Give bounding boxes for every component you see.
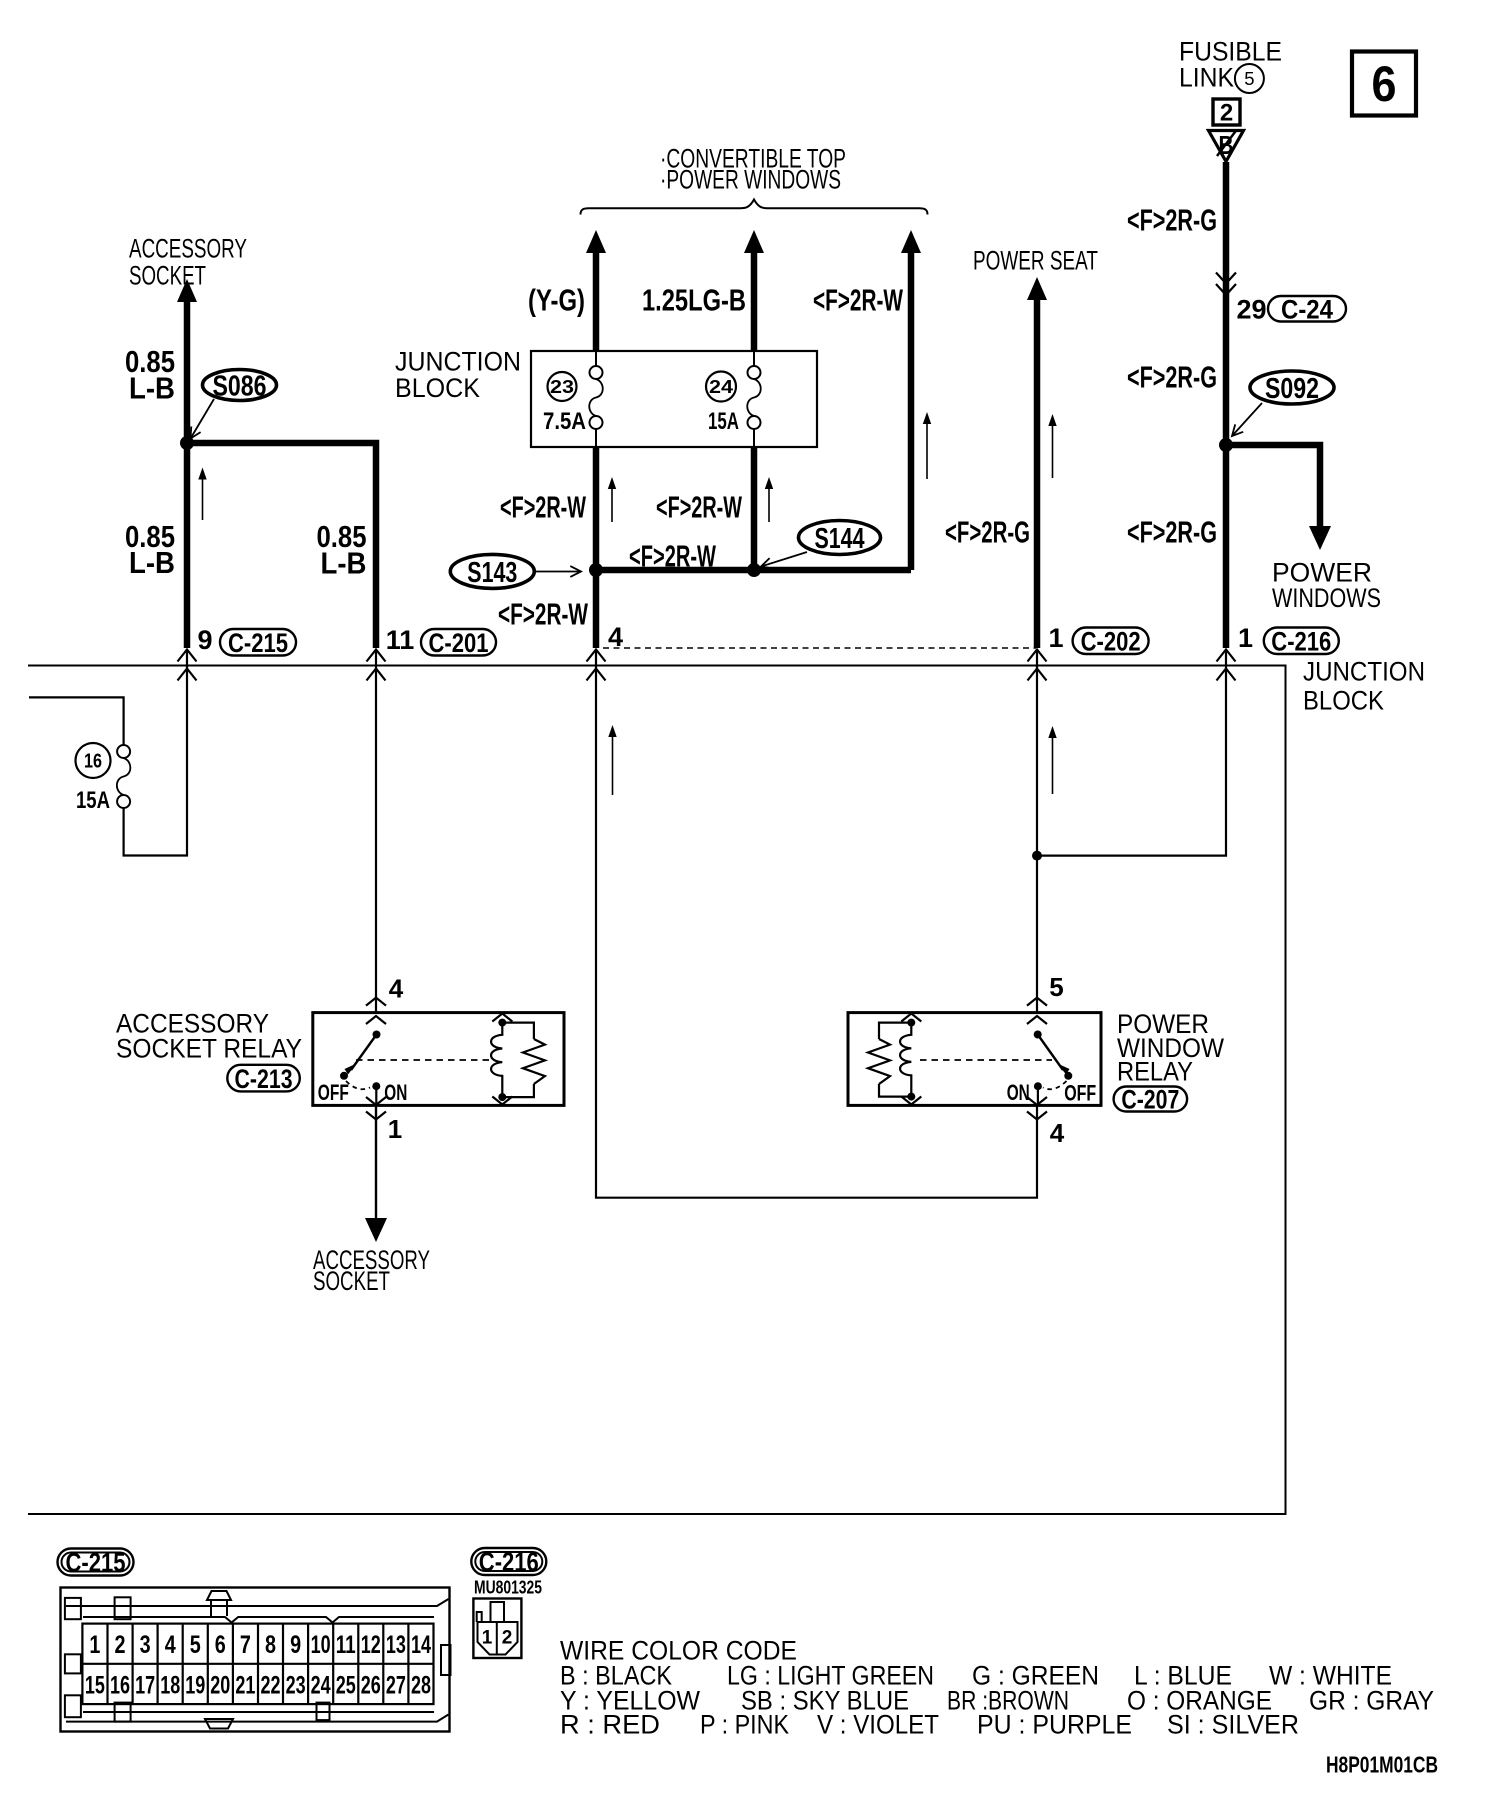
svg-text:<F>2R-W: <F>2R-W xyxy=(656,490,742,525)
connector chevrons at junction block border C-216 pin 1 xyxy=(1217,650,1236,662)
svg-text:29: 29 xyxy=(1236,295,1266,325)
accessory socket relay box xyxy=(313,1013,564,1106)
wire below fuse 23 down to S143 junction xyxy=(593,447,600,648)
svg-text:C-24: C-24 xyxy=(1281,294,1333,324)
svg-text:P : PINK: P : PINK xyxy=(700,1710,789,1740)
flow arrow beside fuse24 wire xyxy=(768,481,770,522)
connector chevrons at junction block border C-202 pin 1 xyxy=(1028,650,1047,662)
svg-text:15A: 15A xyxy=(76,787,110,814)
svg-text:20: 20 xyxy=(210,1672,230,1700)
page number box 6 xyxy=(1352,52,1416,116)
svg-text:S086: S086 xyxy=(213,371,267,403)
svg-text:4: 4 xyxy=(1050,1118,1065,1148)
arrow S092 to junction xyxy=(1232,403,1262,436)
svg-text:7.5A: 7.5A xyxy=(543,408,586,435)
svg-text:16: 16 xyxy=(110,1672,130,1700)
svg-text:POWER SEAT: POWER SEAT xyxy=(973,246,1098,276)
dashed arc OFF-ON xyxy=(346,1081,370,1089)
flow arrow beside power seat wire xyxy=(1052,418,1054,478)
junction dot S086 xyxy=(180,436,194,450)
connector C-215 (inline) xyxy=(220,629,296,656)
connector C-201 (inline) xyxy=(421,629,496,656)
svg-text:14: 14 xyxy=(411,1631,431,1659)
svg-text:12: 12 xyxy=(361,1631,381,1659)
splice S144 xyxy=(799,521,881,555)
svg-text:C-201: C-201 xyxy=(429,628,489,658)
junction dot join xyxy=(1032,851,1042,861)
connector C-215 drawing outer box xyxy=(61,1588,450,1732)
flow arrow beside fuse23 wire xyxy=(611,481,613,522)
flow arrow inside junction block left of pin4 loop xyxy=(612,729,614,795)
svg-text:3: 3 xyxy=(140,1631,151,1659)
svg-text:<F>2R-W: <F>2R-W xyxy=(629,539,716,574)
svg-text:ON: ON xyxy=(1007,1080,1030,1105)
svg-text:10: 10 xyxy=(311,1631,331,1659)
svg-text:OFF: OFF xyxy=(1064,1081,1096,1106)
svg-text:<F>2R-W: <F>2R-W xyxy=(498,597,588,632)
svg-text:C-202: C-202 xyxy=(1081,626,1141,656)
wire from fuse 16 to C-215 pin 9 riser xyxy=(124,650,187,856)
svg-text:BLOCK: BLOCK xyxy=(1303,686,1384,716)
svg-text:WINDOWS: WINDOWS xyxy=(1272,583,1381,613)
wire C-216 pin 1 down and left to join xyxy=(1037,650,1226,856)
dashed arc OFF-ON relay2 xyxy=(1043,1081,1067,1089)
svg-text:JUNCTION: JUNCTION xyxy=(395,347,521,377)
dashed link arm to coil relay2 xyxy=(920,1059,1052,1061)
junction block fuse box rect xyxy=(531,351,817,447)
fuse 24 circled number xyxy=(706,372,736,402)
relay2 coil xyxy=(907,1019,915,1027)
chevrons at relay top pin 4 xyxy=(366,998,386,1006)
relay ON contact xyxy=(372,1082,380,1090)
wire branch from S086 junction to C-201 pin 11 xyxy=(187,443,376,648)
relay coil xyxy=(498,1019,506,1027)
svg-text:1: 1 xyxy=(388,1114,402,1144)
connector C-213 label xyxy=(227,1065,299,1092)
svg-text:26: 26 xyxy=(361,1672,381,1700)
svg-text:11: 11 xyxy=(386,625,415,655)
svg-text:SI : SILVER: SI : SILVER xyxy=(1167,1710,1299,1740)
svg-text:23: 23 xyxy=(550,376,574,397)
svg-text:21: 21 xyxy=(235,1672,255,1700)
flow arrow inside junction block beside relay5 wire xyxy=(1052,730,1054,794)
splice S092 xyxy=(1250,371,1334,404)
svg-text:22: 22 xyxy=(261,1672,281,1700)
connector chevrons at junction block border C-201 pin 11 xyxy=(367,650,386,662)
svg-text:RELAY: RELAY xyxy=(1117,1057,1193,1087)
svg-text:27: 27 xyxy=(386,1672,406,1700)
svg-text:<F>2R-G: <F>2R-G xyxy=(945,515,1030,550)
connector chevrons at junction block border C-215 pin 9 xyxy=(178,650,197,662)
wire power seat riser xyxy=(1027,277,1047,300)
svg-text:V : VIOLET: V : VIOLET xyxy=(817,1710,939,1740)
wire horizontal S143-S144 to third riser xyxy=(596,567,911,574)
wire relay to accessory socket xyxy=(375,1105,377,1220)
battery feed triangle B xyxy=(1209,131,1244,162)
splice S086 xyxy=(203,370,277,401)
svg-text:C-216: C-216 xyxy=(479,1547,539,1577)
svg-text:BLOCK: BLOCK xyxy=(395,373,480,403)
power source box 2 xyxy=(1213,99,1240,125)
connector C-215 label (bottom) xyxy=(58,1549,134,1576)
svg-text:6: 6 xyxy=(215,1631,226,1659)
svg-text:L-B: L-B xyxy=(321,546,367,581)
chevrons at relay top pin 5 xyxy=(1027,998,1047,1006)
dashed internal link pin4 to C-202 xyxy=(603,647,1036,649)
svg-text:13: 13 xyxy=(386,1631,406,1659)
svg-text:S144: S144 xyxy=(815,523,865,555)
fuse 24 symbol xyxy=(753,351,755,366)
connector C-216 drawing xyxy=(473,1599,521,1659)
wire F 2R-W up arrow (third) xyxy=(901,230,921,253)
svg-text:C-213: C-213 xyxy=(235,1064,293,1094)
svg-text:SOCKET: SOCKET xyxy=(313,1266,390,1296)
C-215 housing top lines xyxy=(66,1599,449,1606)
connector C-24 crossing chevrons xyxy=(1216,273,1236,284)
dashed link arm to coil xyxy=(356,1059,490,1061)
svg-text:17: 17 xyxy=(135,1672,155,1700)
relay2 resistor xyxy=(879,1023,911,1039)
svg-text:2: 2 xyxy=(1220,100,1233,127)
svg-text:5: 5 xyxy=(1244,68,1254,89)
svg-text:LINK: LINK xyxy=(1179,63,1234,93)
C-215 pin grid xyxy=(82,1624,433,1705)
svg-text:L-B: L-B xyxy=(129,545,175,580)
svg-text:8: 8 xyxy=(265,1631,276,1659)
C-215 left mount tabs xyxy=(65,1598,81,1619)
relay2 switch arm xyxy=(1034,1031,1042,1039)
svg-text:SOCKET RELAY: SOCKET RELAY xyxy=(116,1034,302,1064)
svg-text:7: 7 xyxy=(240,1631,251,1659)
C-215 top tab xyxy=(207,1591,231,1600)
svg-text:S143: S143 xyxy=(467,557,517,589)
fuse 23 circled number xyxy=(548,372,577,401)
flow arrow beside accessory wire xyxy=(202,472,204,521)
svg-text:5: 5 xyxy=(190,1631,201,1659)
wire junction block to accessory socket relay pin 4 xyxy=(375,650,377,1013)
svg-text:L-B: L-B xyxy=(129,371,175,406)
relay resistor xyxy=(502,1023,534,1039)
relay switch arm xyxy=(373,1031,381,1039)
svg-text:16: 16 xyxy=(84,751,102,773)
wire branch to power windows xyxy=(1226,445,1320,527)
svg-text:·POWER WINDOWS: ·POWER WINDOWS xyxy=(660,165,841,195)
brace over three wires xyxy=(581,200,928,215)
svg-text:15A: 15A xyxy=(708,408,739,435)
svg-text:5: 5 xyxy=(1049,972,1063,1002)
svg-text:GR : GRAY: GR : GRAY xyxy=(1309,1686,1434,1716)
svg-text:9: 9 xyxy=(197,625,212,655)
chevrons relay2 coil pins xyxy=(901,1014,921,1022)
wire 1.25LG-B up arrow xyxy=(744,230,764,253)
C-215 housing bottom lines xyxy=(83,1711,434,1713)
svg-text:<F>2R-W: <F>2R-W xyxy=(500,490,586,525)
wire junction block pin 4 loop to power window relay pin 4 xyxy=(596,650,1037,1198)
svg-text:1: 1 xyxy=(1238,623,1253,653)
svg-text:<F>2R-G: <F>2R-G xyxy=(1127,203,1217,238)
flow arrow beside third riser xyxy=(926,416,928,479)
chevrons at relay2 bottom pin 4 xyxy=(1027,1097,1047,1105)
svg-text:(Y-G): (Y-G) xyxy=(528,283,585,318)
svg-text:1: 1 xyxy=(89,1631,100,1659)
svg-text:2: 2 xyxy=(502,1628,513,1649)
circled 5 fusible link number xyxy=(1235,64,1264,93)
fuse 16 circled number xyxy=(76,743,111,778)
svg-text:PU : PURPLE: PU : PURPLE xyxy=(977,1710,1132,1740)
wire junction block internal from left edge to fuse 16 xyxy=(29,697,124,745)
svg-text:15: 15 xyxy=(85,1672,105,1700)
connector C-24 (inline) xyxy=(1268,296,1346,322)
svg-text:C-207: C-207 xyxy=(1121,1085,1179,1115)
svg-text:OFF: OFF xyxy=(318,1080,349,1105)
svg-text:2: 2 xyxy=(115,1631,126,1659)
svg-text:1: 1 xyxy=(482,1628,493,1649)
fuse 16 symbol xyxy=(117,745,130,758)
svg-text:C-215: C-215 xyxy=(228,628,288,658)
svg-text:9: 9 xyxy=(290,1631,301,1659)
svg-text:SOCKET: SOCKET xyxy=(129,261,206,291)
svg-text:S092: S092 xyxy=(1265,373,1319,405)
svg-text:11: 11 xyxy=(336,1631,356,1659)
svg-text:H8P01M01CB: H8P01M01CB xyxy=(1326,1752,1438,1778)
wire C-202 pin 1 down to power window relay pin 5 xyxy=(1036,650,1038,1013)
svg-text:4: 4 xyxy=(389,974,404,1004)
svg-text:C-215: C-215 xyxy=(66,1548,126,1578)
arrow from S086 to junction xyxy=(191,399,215,439)
svg-text:C-216: C-216 xyxy=(1271,626,1331,656)
arrow S144 to junction xyxy=(761,552,807,567)
wire (Y-G) up arrow to convertible top xyxy=(586,230,606,253)
svg-text:24: 24 xyxy=(311,1672,331,1700)
svg-text:ACCESSORY: ACCESSORY xyxy=(129,234,247,264)
svg-text:ON: ON xyxy=(384,1080,407,1105)
wire fusible link riser xyxy=(1223,162,1230,648)
connector C-216 (inline) xyxy=(1264,628,1339,655)
svg-text:<F>2R-G: <F>2R-G xyxy=(1127,515,1217,550)
chevrons at relay bottom pin 1 xyxy=(366,1097,386,1105)
splice S143 xyxy=(450,554,534,588)
fuse 23 symbol xyxy=(595,351,597,366)
junction dot S144 xyxy=(747,563,761,577)
svg-text:23: 23 xyxy=(286,1672,306,1700)
svg-text:25: 25 xyxy=(336,1672,356,1700)
connector C-202 (inline) xyxy=(1073,628,1149,655)
arrow S143 to junction xyxy=(536,571,581,573)
junction block border xyxy=(28,666,1286,1515)
svg-text:MU801325: MU801325 xyxy=(474,1578,542,1598)
svg-text:28: 28 xyxy=(411,1672,431,1700)
power window relay box xyxy=(848,1013,1101,1106)
svg-text:JUNCTION: JUNCTION xyxy=(1303,657,1425,687)
relay2 ON contact xyxy=(1034,1082,1042,1090)
junction dot S092 xyxy=(1219,438,1233,452)
svg-text:<F>2R-G: <F>2R-G xyxy=(1127,360,1217,395)
wire accessory socket vertical 0.85 L-B with arrow xyxy=(184,300,191,648)
svg-text:18: 18 xyxy=(160,1672,180,1700)
chevrons coil pins xyxy=(492,1014,512,1022)
svg-text:1.25LG-B: 1.25LG-B xyxy=(642,283,746,318)
wire below fuse 24 down to S144 junction xyxy=(751,447,758,570)
svg-text:24: 24 xyxy=(709,376,734,397)
svg-text:4: 4 xyxy=(165,1631,176,1659)
junction dot S143 xyxy=(589,563,603,577)
connector C-207 label xyxy=(1114,1087,1188,1112)
svg-text:R : RED: R : RED xyxy=(560,1710,660,1740)
svg-text:19: 19 xyxy=(185,1672,205,1700)
svg-text:1: 1 xyxy=(1048,623,1063,653)
connector C-216 label (bottom) xyxy=(471,1548,546,1575)
svg-text:<F>2R-W: <F>2R-W xyxy=(813,283,903,318)
svg-text:6: 6 xyxy=(1372,56,1397,112)
connector chevrons at junction block border pin 4 xyxy=(587,650,606,662)
